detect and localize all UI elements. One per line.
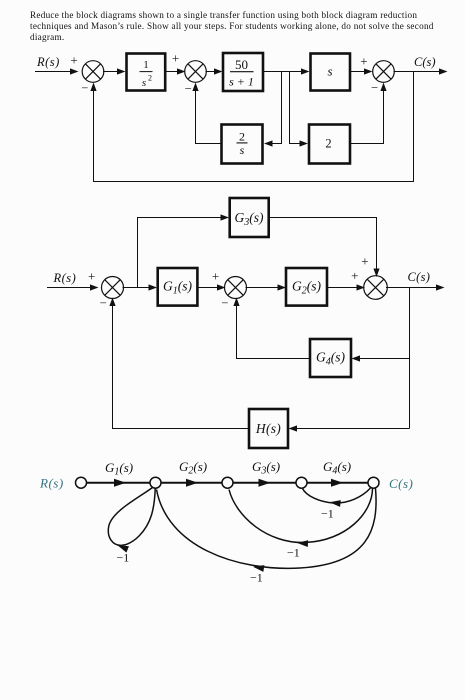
svg-text:H(s): H(s) xyxy=(255,421,281,436)
wire S2 to block 50/(s+1) xyxy=(206,68,223,74)
node n5 C xyxy=(368,477,379,488)
svg-text:−1: −1 xyxy=(117,551,130,565)
svg-text:+: + xyxy=(88,269,95,284)
svg-text:+: + xyxy=(360,54,367,69)
block G2 xyxy=(286,268,327,306)
label R(s) node xyxy=(39,476,64,491)
svg-text:s: s xyxy=(240,143,245,157)
branch G2 xyxy=(161,479,222,487)
label G4(s) xyxy=(323,459,351,477)
svg-text:2: 2 xyxy=(239,130,245,144)
wire G3 to SC top xyxy=(269,218,380,278)
block H xyxy=(249,409,288,448)
svg-text:2: 2 xyxy=(325,137,331,151)
svg-text:G4(s): G4(s) xyxy=(323,459,351,477)
summing junction S1 xyxy=(82,61,104,83)
block 1/s^2 xyxy=(127,54,166,91)
plus sign S2 xyxy=(172,51,179,66)
plus sign SA xyxy=(88,269,95,284)
svg-text:C(s): C(s) xyxy=(408,270,431,284)
label R(s) input 2 xyxy=(53,271,77,285)
instruction text xyxy=(30,10,465,43)
wire takeoff down right xyxy=(409,288,411,429)
label -1 branch C to n2 xyxy=(250,571,263,585)
plus sign S3 xyxy=(360,54,367,69)
summing junction S2 xyxy=(185,61,207,83)
svg-text:G4(s): G4(s) xyxy=(316,350,345,368)
block 2 xyxy=(309,125,350,164)
block G4 xyxy=(310,339,351,377)
plus sign SB xyxy=(212,269,219,284)
label G1(s) xyxy=(105,460,133,478)
svg-text:−1: −1 xyxy=(287,546,300,560)
summing junction SA xyxy=(102,277,124,299)
svg-text:G2(s): G2(s) xyxy=(292,279,321,297)
wire G2 to SC xyxy=(327,284,365,290)
wire into G4 xyxy=(352,355,410,361)
label C(s) node xyxy=(389,476,413,491)
minus sign SB xyxy=(221,296,228,310)
label G2(s) xyxy=(179,459,207,477)
svg-text:G3(s): G3(s) xyxy=(235,210,264,228)
svg-text:R(s): R(s) xyxy=(53,271,77,285)
svg-text:−: − xyxy=(100,296,107,310)
svg-text:s: s xyxy=(327,64,332,79)
label -1 branch C to n4 xyxy=(321,507,334,521)
svg-text:+: + xyxy=(172,51,179,66)
svg-text:+: + xyxy=(212,269,219,284)
branch G4 xyxy=(307,479,368,487)
svg-text:G1(s): G1(s) xyxy=(105,460,133,478)
block 50/(s+1) xyxy=(223,53,263,91)
label C(s) output 2 xyxy=(408,270,431,284)
wire C output xyxy=(394,68,448,74)
svg-text:−1: −1 xyxy=(321,507,334,521)
block 2/s xyxy=(222,125,263,164)
minus sign SA xyxy=(100,296,107,310)
svg-text:−: − xyxy=(371,81,378,95)
block s xyxy=(311,54,351,91)
svg-text:C(s): C(s) xyxy=(389,476,413,491)
wire branch down to 2/s xyxy=(264,72,282,147)
label R(s) input xyxy=(36,55,60,69)
label -1 branch C to n3 xyxy=(287,546,300,560)
wire block s to S3 xyxy=(350,68,373,74)
wire G4 output to SB xyxy=(233,298,310,359)
svg-text:R(s): R(s) xyxy=(39,476,64,491)
wire block 1/s2 to S2 xyxy=(165,68,185,74)
svg-text:s + 1: s + 1 xyxy=(229,74,254,88)
label G3(s) xyxy=(252,459,280,477)
svg-text:50: 50 xyxy=(235,57,248,72)
wire branch down to 2 xyxy=(290,72,309,147)
label -1 self loop xyxy=(117,551,130,565)
summing junction SB xyxy=(225,277,247,299)
svg-text:2: 2 xyxy=(148,74,152,83)
wire S1 to block 1/s2 xyxy=(103,68,126,74)
svg-text:C(s): C(s) xyxy=(414,55,436,69)
block G3 xyxy=(230,198,269,237)
wire R input xyxy=(35,68,79,74)
node n2 xyxy=(150,477,161,488)
block G1 xyxy=(158,268,198,306)
svg-text:1: 1 xyxy=(143,59,149,71)
wire block 50 to block s xyxy=(263,68,310,74)
node n3 xyxy=(222,477,233,488)
minus sign S2 xyxy=(185,82,192,96)
wire branch up to G3 xyxy=(138,214,230,287)
plus sign S1 xyxy=(70,52,77,67)
wire outer feedback C to S1 xyxy=(90,72,413,182)
plus sign SC top xyxy=(361,254,368,269)
plus sign SC left xyxy=(351,268,358,283)
label C(s) output xyxy=(414,55,436,69)
svg-text:G2(s): G2(s) xyxy=(179,459,207,477)
svg-text:−: − xyxy=(221,296,228,310)
wire R input 2 xyxy=(47,284,99,290)
wire into H xyxy=(289,425,410,431)
svg-text:+: + xyxy=(361,254,368,269)
svg-text:+: + xyxy=(351,268,358,283)
summing junction SC xyxy=(364,276,388,300)
self loop at n2 xyxy=(108,488,155,553)
svg-text:−: − xyxy=(185,82,192,96)
svg-text:s: s xyxy=(142,77,146,89)
branch G1 xyxy=(87,479,151,487)
feedback branch C to n4 xyxy=(303,488,371,507)
wire H output to SA xyxy=(109,298,249,429)
feedback branch C to n2 xyxy=(157,489,377,572)
wire G1 to SB xyxy=(197,284,225,290)
svg-text:+: + xyxy=(70,52,77,67)
svg-text:−1: −1 xyxy=(250,571,263,585)
summing junction S3 xyxy=(373,61,395,83)
wire C output 2 xyxy=(386,284,445,290)
minus sign S1 xyxy=(81,81,88,95)
wire SB to G2 xyxy=(246,284,287,290)
node n4 xyxy=(296,477,307,488)
svg-text:R(s): R(s) xyxy=(36,55,60,69)
minus sign S3 xyxy=(371,81,378,95)
branch G3 xyxy=(233,479,296,487)
svg-text:−: − xyxy=(81,81,88,95)
svg-text:G1(s): G1(s) xyxy=(163,279,192,297)
svg-text:G3(s): G3(s) xyxy=(252,459,280,477)
wire 2 output to S3 xyxy=(350,83,387,144)
wire SA to G1 xyxy=(123,284,158,290)
feedback branch C to n3 xyxy=(229,489,373,548)
wire 2/s output to S2 xyxy=(192,83,221,144)
node n1 R xyxy=(76,477,87,488)
